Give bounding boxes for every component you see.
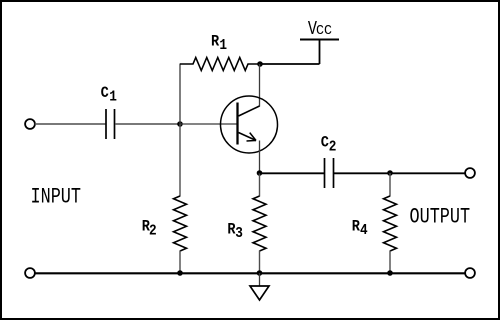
bottom terminal left (25, 268, 35, 278)
wire emitter node to C2 (260, 172, 325, 174)
resistor R4 (389, 173, 391, 197)
svg-text:INPUT: INPUT (31, 184, 82, 209)
svg-text:R: R (352, 218, 360, 235)
wire to output terminal (390, 172, 465, 174)
resistor R1 (180, 58, 260, 71)
svg-text:CC: CC (316, 24, 332, 39)
input terminal (25, 119, 35, 129)
capacitor C1 (106, 109, 115, 139)
node base junction (177, 121, 183, 127)
node output junction (387, 170, 393, 176)
resistor R3 (259, 173, 261, 197)
wire ground stem (259, 273, 261, 286)
svg-text:1: 1 (219, 37, 227, 54)
bottom terminal right (465, 268, 475, 278)
svg-text:C: C (321, 135, 329, 152)
svg-text:OUTPUT: OUTPUT (410, 204, 471, 229)
transistor Q1 (221, 96, 278, 153)
svg-text:3: 3 (235, 225, 243, 242)
wire input to C1 (35, 123, 106, 125)
svg-text:R: R (211, 33, 219, 50)
node R3 bottom junction (257, 270, 263, 276)
node emitter junction (257, 170, 263, 176)
svg-text:2: 2 (149, 223, 157, 240)
wire riser to R1 (179, 64, 181, 125)
ground (250, 286, 269, 300)
capacitor C2 (325, 158, 334, 188)
node R1 collector Vcc junction (257, 61, 263, 67)
svg-text:2: 2 (329, 139, 337, 156)
power Vcc symbol (300, 39, 339, 41)
wire base node to transistor base (180, 123, 237, 125)
wire bottom rail (35, 272, 466, 274)
svg-text:C: C (101, 85, 109, 102)
output terminal (465, 168, 475, 178)
wire collector (259, 64, 261, 107)
wire C1 to base node (115, 123, 180, 125)
svg-text:4: 4 (360, 222, 368, 239)
node R4 bottom junction (387, 270, 393, 276)
node R2 bottom junction (177, 270, 183, 276)
wire emitter (259, 141, 261, 174)
wire Vcc drop (319, 40, 321, 65)
wire C2 to output node (334, 172, 390, 174)
wire junction to Vcc (260, 63, 320, 65)
resistor R2 (179, 124, 181, 197)
svg-text:1: 1 (109, 89, 117, 106)
